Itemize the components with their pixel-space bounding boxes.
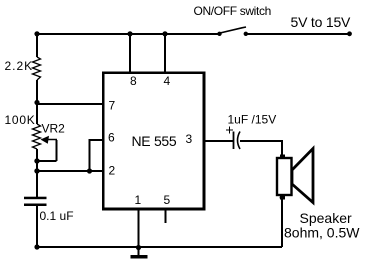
svg-text:100K: 100K <box>5 113 36 127</box>
svg-text:4: 4 <box>164 74 171 88</box>
svg-text:2: 2 <box>109 164 116 178</box>
svg-text:VR2: VR2 <box>42 122 66 136</box>
svg-text:8ohm, 0.5W: 8ohm, 0.5W <box>284 224 360 240</box>
svg-text:ON/OFF switch: ON/OFF switch <box>194 4 271 18</box>
svg-text:5: 5 <box>164 193 171 207</box>
svg-text:1uF /15V: 1uF /15V <box>228 112 277 126</box>
svg-text:6: 6 <box>108 131 115 145</box>
svg-text:3: 3 <box>186 132 193 146</box>
svg-text:NE 555: NE 555 <box>132 133 177 149</box>
svg-text:7: 7 <box>109 99 116 113</box>
svg-text:1: 1 <box>135 193 142 207</box>
svg-text:8: 8 <box>130 74 137 88</box>
svg-text:2.2K: 2.2K <box>5 59 34 73</box>
svg-text:0.1 uF: 0.1 uF <box>40 209 74 223</box>
svg-text:5V to 15V: 5V to 15V <box>291 14 352 30</box>
